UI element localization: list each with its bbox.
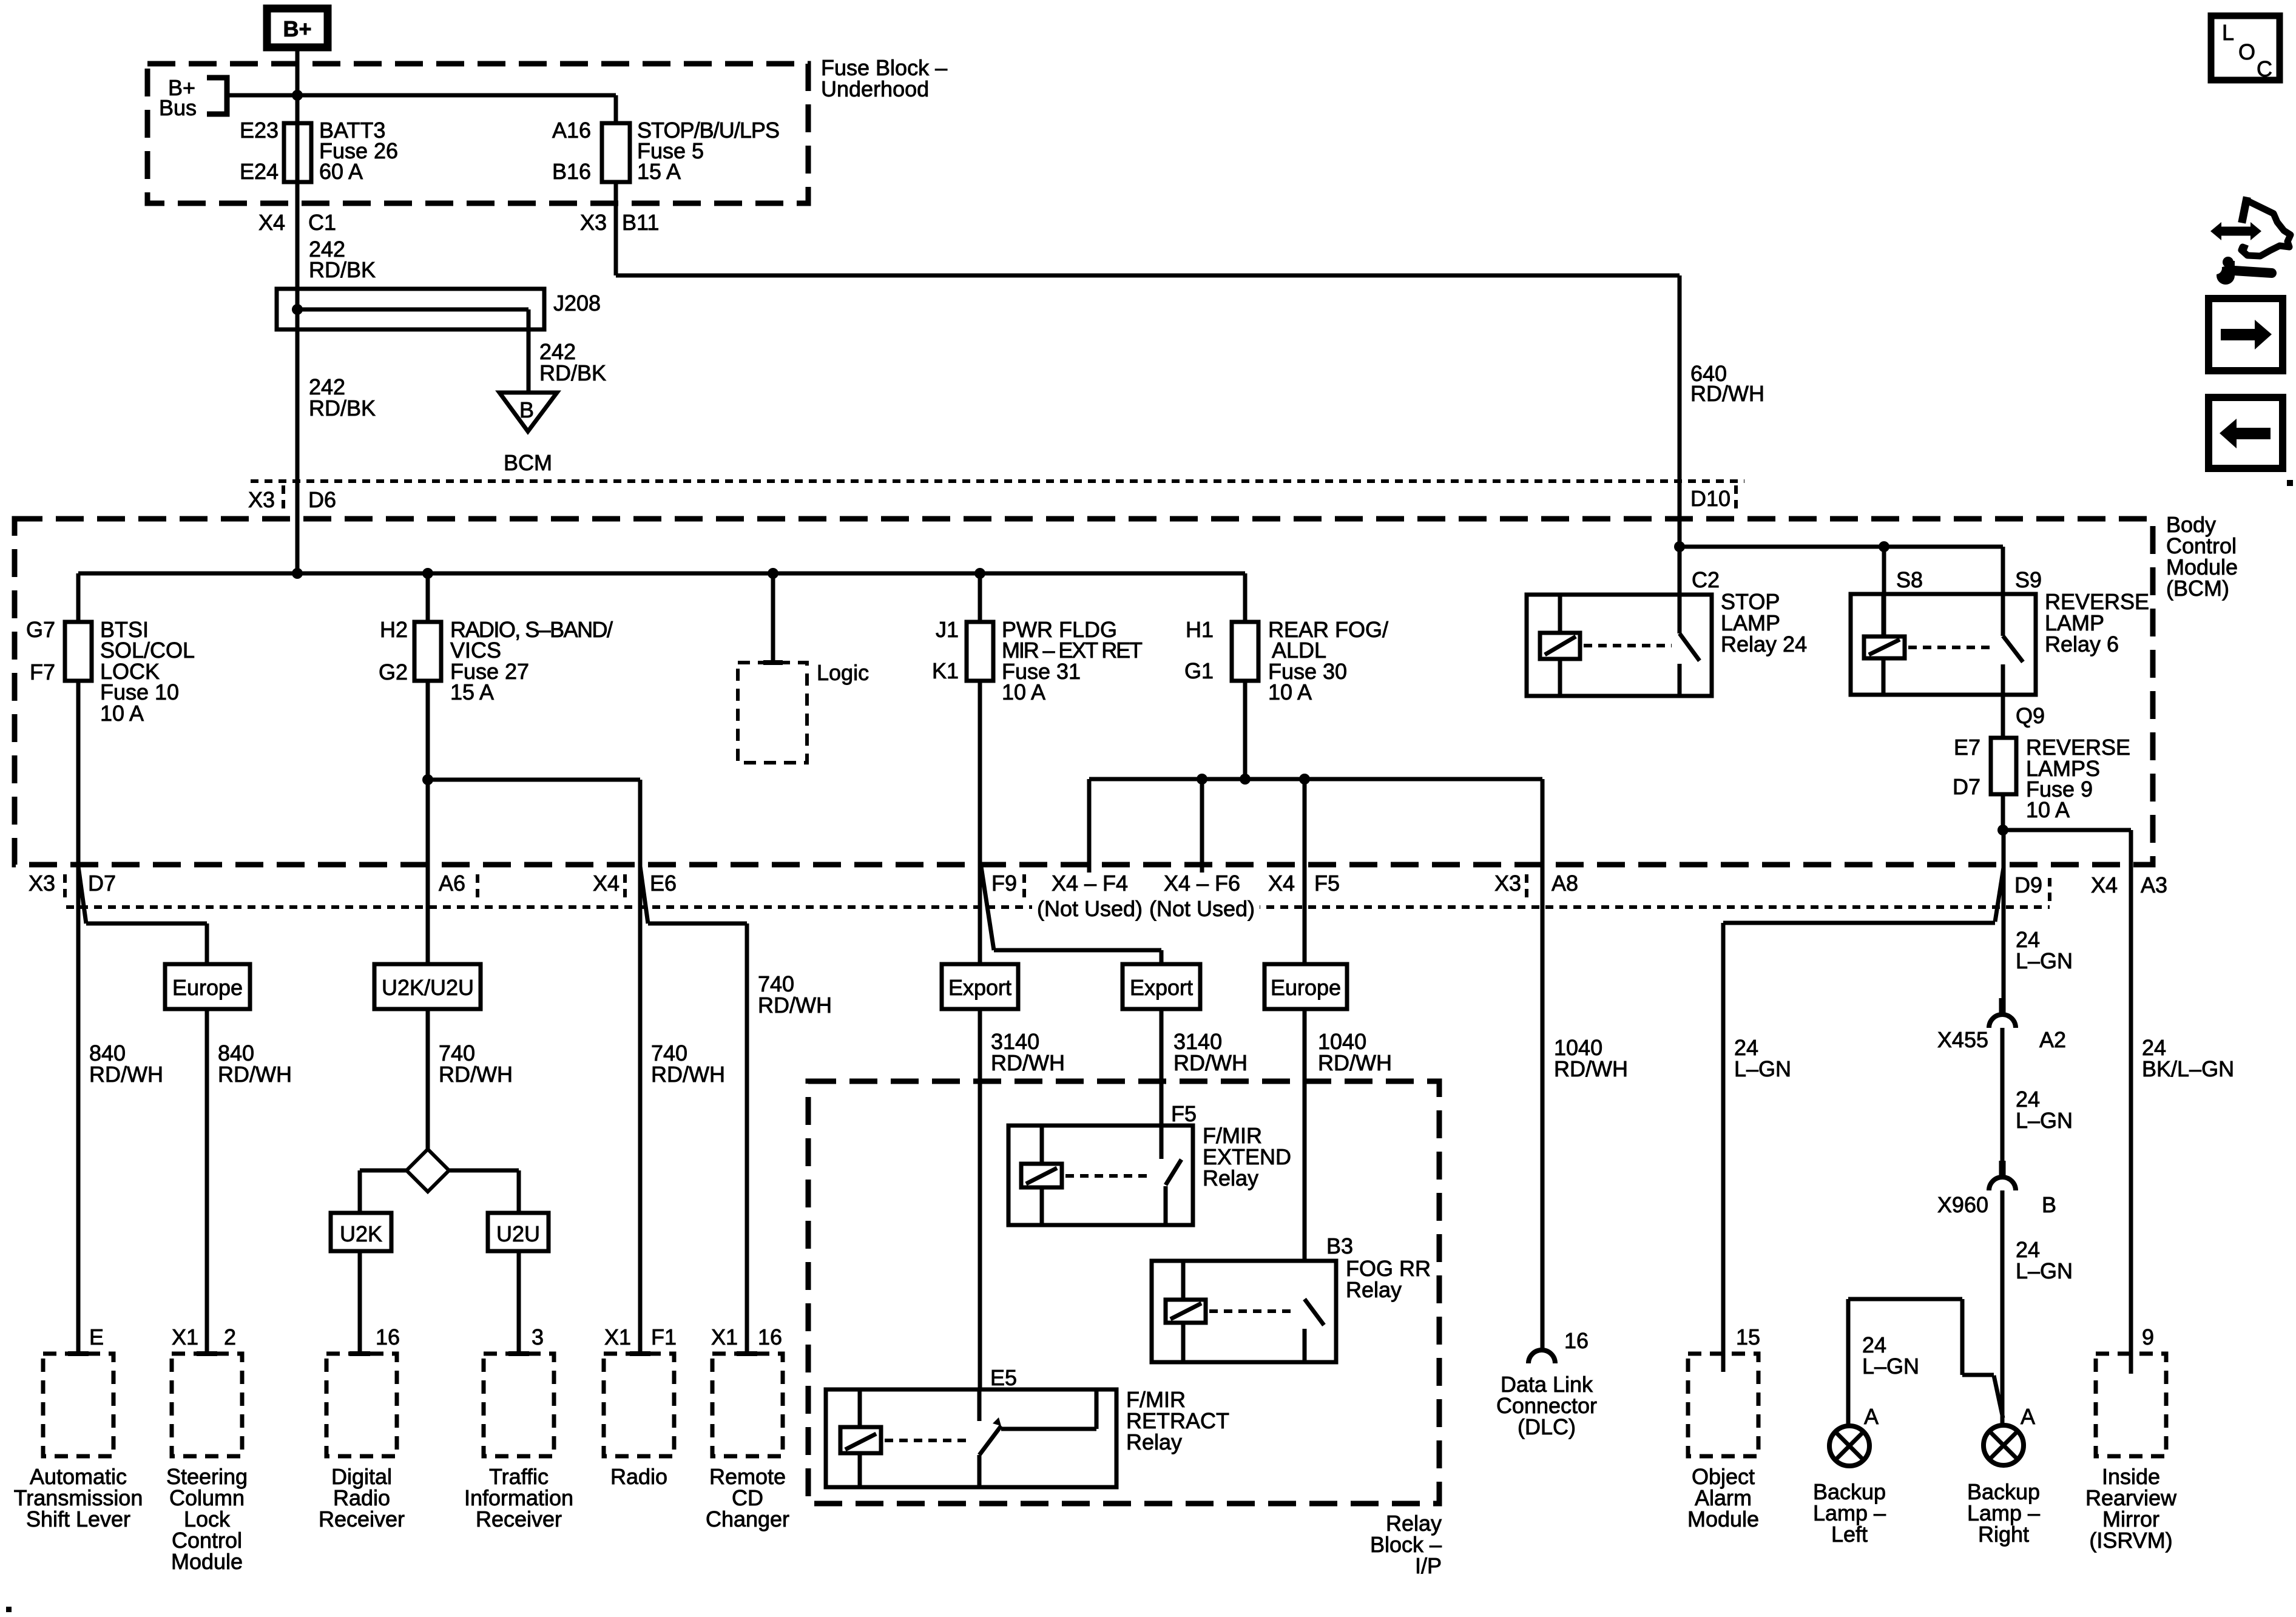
svg-text:Module: Module — [171, 1549, 243, 1574]
svg-text:A: A — [2021, 1404, 2035, 1429]
svg-text:X4 – F6: X4 – F6 — [1164, 871, 1240, 896]
svg-text:Radio: Radio — [610, 1464, 667, 1489]
svg-text:L: L — [2222, 20, 2234, 45]
svg-text:K1: K1 — [932, 658, 959, 683]
svg-text:Underhood: Underhood — [821, 76, 929, 101]
svg-text:Module: Module — [1687, 1507, 1759, 1531]
svg-text:L–GN: L–GN — [1862, 1354, 1919, 1379]
svg-text:A3: A3 — [2141, 873, 2167, 897]
svg-text:RD/WH: RD/WH — [758, 993, 832, 1018]
svg-text:15 A: 15 A — [637, 159, 681, 184]
svg-text:(Not Used): (Not Used) — [1149, 896, 1255, 921]
svg-text:RD/BK: RD/BK — [309, 396, 376, 420]
svg-text:D7: D7 — [88, 871, 116, 896]
svg-text:L–GN: L–GN — [1734, 1056, 1791, 1081]
svg-text:F5: F5 — [1314, 871, 1340, 896]
svg-text:F5: F5 — [1171, 1101, 1197, 1126]
svg-text:RD/WH: RD/WH — [1690, 381, 1764, 406]
svg-text:F7: F7 — [30, 660, 55, 684]
svg-text:U2U: U2U — [496, 1221, 540, 1246]
svg-text:A: A — [1864, 1404, 1879, 1429]
svg-text:(ISRVM): (ISRVM) — [2089, 1528, 2172, 1553]
svg-text:A16: A16 — [552, 118, 591, 143]
svg-text:Relay: Relay — [1346, 1277, 1402, 1302]
svg-text:60 A: 60 A — [319, 159, 363, 184]
svg-text:F1: F1 — [651, 1325, 677, 1349]
svg-text:X1: X1 — [172, 1325, 198, 1349]
svg-text:RD/WH: RD/WH — [218, 1062, 292, 1087]
svg-text:RD/WH: RD/WH — [439, 1062, 513, 1087]
svg-text:Right: Right — [1978, 1522, 2029, 1547]
svg-text:H1: H1 — [1186, 617, 1214, 642]
svg-text:RD/WH: RD/WH — [651, 1062, 725, 1087]
svg-text:X3: X3 — [29, 871, 55, 896]
svg-text:RD/BK: RD/BK — [539, 360, 606, 385]
svg-text:D9: D9 — [2014, 873, 2042, 897]
svg-text:O: O — [2238, 39, 2255, 64]
svg-text:Q9: Q9 — [2016, 703, 2045, 728]
svg-text:X960: X960 — [1937, 1192, 1988, 1217]
svg-text:B: B — [2042, 1192, 2056, 1217]
svg-text:D10: D10 — [1690, 486, 1730, 511]
svg-text:B11: B11 — [622, 210, 659, 235]
svg-text:X3: X3 — [248, 487, 275, 512]
svg-text:H2: H2 — [380, 617, 408, 642]
svg-text:I/P: I/P — [1415, 1553, 1442, 1578]
svg-text:S8: S8 — [1896, 567, 1923, 592]
svg-text:10 A: 10 A — [1268, 680, 1312, 704]
svg-text:J208: J208 — [553, 291, 601, 316]
svg-text:(DLC): (DLC) — [1518, 1414, 1576, 1439]
svg-text:X4: X4 — [2091, 873, 2118, 897]
svg-text:RD/WH: RD/WH — [1554, 1056, 1628, 1081]
svg-text:X3: X3 — [1494, 871, 1521, 896]
svg-text:E7: E7 — [1954, 735, 1980, 760]
svg-text:Logic: Logic — [817, 660, 869, 685]
svg-text:Relay: Relay — [1203, 1166, 1258, 1190]
svg-text:Relay 24: Relay 24 — [1721, 632, 1807, 657]
svg-text:Left: Left — [1831, 1522, 1868, 1547]
svg-text:A8: A8 — [1551, 871, 1578, 896]
svg-text:B+: B+ — [283, 16, 311, 41]
svg-text:F9: F9 — [991, 871, 1017, 896]
svg-text:C1: C1 — [308, 210, 336, 235]
svg-text:B: B — [519, 397, 534, 422]
svg-text:RD/WH: RD/WH — [89, 1062, 163, 1087]
svg-text:B16: B16 — [552, 159, 591, 184]
svg-text:RD/WH: RD/WH — [991, 1050, 1065, 1075]
svg-text:RD/WH: RD/WH — [1318, 1050, 1392, 1075]
svg-text:U2K/U2U: U2K/U2U — [382, 975, 474, 1000]
svg-text:Shift Lever: Shift Lever — [26, 1507, 130, 1531]
svg-text:Receiver: Receiver — [476, 1507, 562, 1531]
svg-text:E5: E5 — [990, 1365, 1017, 1390]
svg-text:D6: D6 — [308, 487, 336, 512]
svg-text:X1: X1 — [604, 1325, 631, 1349]
svg-text:BK/L–GN: BK/L–GN — [2142, 1056, 2234, 1081]
svg-text:15 A: 15 A — [450, 680, 494, 704]
svg-text:X4: X4 — [258, 210, 285, 235]
svg-text:16: 16 — [1564, 1328, 1589, 1353]
svg-text:G7: G7 — [26, 617, 55, 642]
svg-text:Export: Export — [948, 975, 1011, 1000]
svg-text:16: 16 — [758, 1325, 782, 1349]
svg-text:X1: X1 — [711, 1325, 738, 1349]
svg-text:X3: X3 — [580, 210, 607, 235]
svg-text:Bus: Bus — [159, 95, 197, 120]
svg-text:15: 15 — [1736, 1325, 1760, 1349]
svg-text:10 A: 10 A — [1002, 680, 1045, 704]
svg-text:L–GN: L–GN — [2016, 1258, 2073, 1283]
svg-text:E24: E24 — [240, 159, 279, 184]
svg-text:X4: X4 — [1268, 871, 1295, 896]
svg-text:RD/WH: RD/WH — [1173, 1050, 1248, 1075]
svg-text:E: E — [89, 1325, 104, 1349]
svg-text:10 A: 10 A — [100, 701, 144, 726]
svg-text:G2: G2 — [379, 660, 408, 684]
svg-text:E23: E23 — [240, 118, 279, 143]
svg-text:S9: S9 — [2015, 567, 2042, 592]
svg-text:X4: X4 — [593, 871, 620, 896]
svg-text:RD/BK: RD/BK — [309, 257, 376, 282]
svg-text:(Not Used): (Not Used) — [1037, 896, 1143, 921]
svg-text:Relay 6: Relay 6 — [2045, 632, 2119, 657]
svg-text:10 A: 10 A — [2026, 797, 2070, 822]
svg-text:3: 3 — [532, 1325, 544, 1349]
svg-text:X455: X455 — [1937, 1027, 1988, 1052]
svg-text:(BCM): (BCM) — [2166, 576, 2229, 601]
svg-text:Europe: Europe — [172, 975, 243, 1000]
svg-text:A2: A2 — [2039, 1027, 2066, 1052]
svg-text:A6: A6 — [439, 871, 465, 896]
svg-text:J1: J1 — [936, 617, 959, 642]
svg-text:Changer: Changer — [706, 1507, 789, 1531]
svg-text:Europe: Europe — [1271, 975, 1341, 1000]
svg-text:9: 9 — [2142, 1325, 2154, 1349]
svg-text:G1: G1 — [1184, 658, 1214, 683]
svg-text:2: 2 — [224, 1325, 236, 1349]
svg-text:16: 16 — [376, 1325, 400, 1349]
svg-text:E6: E6 — [650, 871, 677, 896]
svg-text:B3: B3 — [1326, 1234, 1353, 1258]
svg-text:Export: Export — [1130, 975, 1193, 1000]
svg-text:Relay: Relay — [1126, 1430, 1182, 1454]
svg-text:C2: C2 — [1692, 567, 1720, 592]
svg-text:U2K: U2K — [340, 1221, 382, 1246]
svg-text:L–GN: L–GN — [2016, 1108, 2073, 1133]
svg-text:Receiver: Receiver — [319, 1507, 405, 1531]
svg-text:X4 – F4: X4 – F4 — [1052, 871, 1128, 896]
svg-text:BCM: BCM — [504, 450, 552, 475]
svg-text:D7: D7 — [1953, 774, 1980, 799]
svg-text:L–GN: L–GN — [2016, 948, 2073, 973]
svg-text:C: C — [2257, 56, 2272, 81]
